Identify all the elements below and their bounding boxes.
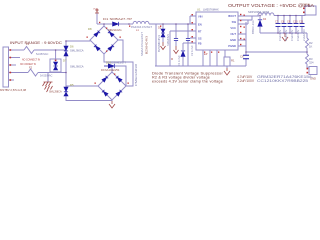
svg-text:VCC: VCC (93, 9, 98, 11)
svg-text:FB: FB (198, 42, 202, 46)
svg-text:SS: SS (198, 37, 202, 41)
svg-text:CON2: CON2 (302, 3, 310, 7)
svg-text:SMAZ4V3-E3/61T: SMAZ4V3-E3/61T (140, 32, 144, 56)
svg-text:D5: D5 (70, 83, 74, 87)
svg-text:D9 6A10-E3/54: D9 6A10-E3/54 (101, 68, 120, 72)
svg-text:NO CONNECT IN: NO CONNECT IN (20, 63, 36, 66)
svg-text:C6: C6 (240, 55, 244, 59)
svg-text:U1: U1 (197, 8, 201, 12)
svg-text:324: 324 (309, 61, 314, 65)
svg-text:C10: C10 (293, 21, 298, 24)
svg-text:1K: 1K (309, 45, 312, 49)
svg-text:BZX84C4V3: BZX84C4V3 (157, 34, 161, 52)
svg-text:DBLS102G: DBLS102G (108, 28, 122, 32)
svg-text:SRP1038A-100M: SRP1038A-100M (248, 10, 270, 14)
svg-text:47uF/10V: 47uF/10V (284, 29, 288, 41)
svg-text:R2: R2 (309, 41, 313, 45)
svg-text:exceeds 4.3V zener clamp the v: exceeds 4.3V zener clamp the voltage (152, 80, 223, 84)
svg-text:OUT: OUT (230, 32, 236, 36)
svg-text:47uF/10V: 47uF/10V (290, 29, 294, 41)
svg-text:BOOT: BOOT (228, 14, 236, 18)
svg-text:INPUT RANGE : 9 60VDC: INPUT RANGE : 9 60VDC (10, 40, 62, 45)
svg-text:R1: R1 (231, 59, 235, 63)
svg-text:SMLJ60CA: SMLJ60CA (70, 65, 84, 69)
svg-text:SMLJ58CA: SMLJ58CA (49, 91, 62, 94)
svg-text:D8: D8 (88, 27, 92, 31)
svg-text:SW: SW (232, 20, 237, 24)
svg-text:VCC: VCC (230, 26, 236, 30)
svg-text:EP: EP (204, 52, 208, 56)
svg-text:D1 SM5A27-TP: D1 SM5A27-TP (103, 17, 132, 21)
svg-text:C11: C11 (299, 21, 304, 24)
svg-text:VIN: VIN (198, 15, 203, 19)
svg-text:GND: GND (230, 38, 236, 42)
svg-text:RT: RT (198, 30, 202, 34)
svg-text:2.2uF/100V: 2.2uF/100V (237, 79, 255, 83)
svg-text:47uF/10V: 47uF/10V (296, 29, 300, 41)
svg-text:D6: D6 (70, 45, 74, 49)
svg-text:2.2uF/100: 2.2uF/100 (302, 29, 306, 41)
svg-text:F2: F2 (29, 66, 33, 70)
svg-text:EN: EN (198, 23, 202, 27)
svg-text:D7: D7 (63, 59, 67, 63)
svg-text:BZX84C4V3: BZX84C4V3 (145, 35, 149, 54)
svg-text:C1 4.7uF: C1 4.7uF (177, 55, 181, 66)
svg-text:SMLJ60CA: SMLJ60CA (70, 49, 84, 53)
svg-text:5A/250VAC: 5A/250VAC (36, 53, 49, 56)
svg-text:C2 4.7uF: C2 4.7uF (190, 45, 194, 56)
svg-text:NO CONNECT IN: NO CONNECT IN (22, 59, 40, 62)
svg-text:47uF/10V: 47uF/10V (278, 29, 282, 41)
svg-text:5A/250VAC: 5A/250VAC (40, 75, 53, 78)
svg-text:PA4343.472NLT: PA4343.472NLT (131, 26, 153, 29)
svg-text:PGND: PGND (228, 44, 236, 48)
svg-text:CC1210KKX7R9BB225: CC1210KKX7R9BB225 (257, 79, 308, 83)
svg-text:B560C-13-F: B560C-13-F (251, 19, 255, 34)
svg-text:F1: F1 (26, 42, 30, 46)
svg-text:SMAZ4V3: SMAZ4V3 (166, 34, 170, 46)
svg-text:PMEG6030: PMEG6030 (134, 63, 138, 86)
svg-text:R3: R3 (309, 57, 313, 61)
svg-text:SS36-E3/57T: SS36-E3/57T (110, 61, 126, 65)
svg-text:LM5576MHX: LM5576MHX (203, 8, 219, 12)
svg-text:D10: D10 (106, 61, 111, 65)
svg-text:MSTBV 2,5/5-G-5,08: MSTBV 2,5/5-G-5,08 (0, 88, 27, 92)
